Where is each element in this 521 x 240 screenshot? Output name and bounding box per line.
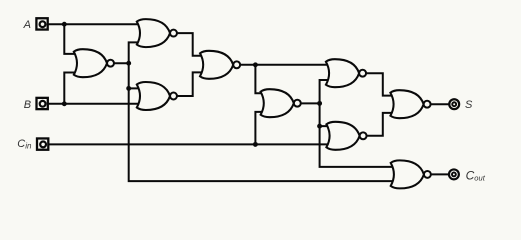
- wire B input to G3 bottom: [49, 103, 139, 105]
- nor gate G2 NOR(A,n1): [137, 19, 177, 47]
- junction n1: [126, 61, 131, 66]
- svg-text:Cout: Cout: [466, 168, 486, 182]
- wire n1 up to G2 bottom: [129, 42, 139, 63]
- junction x1: [253, 62, 258, 67]
- nor gate G1 NOR(A,B): [74, 49, 114, 77]
- junction n1-G3: [126, 86, 131, 91]
- input port B: [37, 98, 48, 109]
- wire B branch up to G1 bottom: [64, 73, 75, 104]
- svg-text:B: B: [24, 99, 31, 111]
- wire G5 out to bus: [301, 102, 319, 104]
- wire Cin branch up to G5 bottom: [255, 112, 262, 144]
- wire G1 out to junction: [115, 62, 129, 64]
- input port Cin: [37, 138, 48, 149]
- wire A branch down to G1 top: [64, 24, 75, 54]
- wire n5 bus up to G6 bottom: [320, 80, 328, 103]
- nor gate G9 carry NOR(n1,n5): [391, 160, 431, 188]
- nor gate G5 NOR(x1,Cin): [261, 89, 301, 117]
- svg-text:S: S: [465, 99, 473, 111]
- nor gate G7 NOR(n5,Cin): [326, 122, 366, 150]
- svg-text:A: A: [23, 19, 31, 31]
- junction A: [62, 22, 67, 27]
- wire n1 down and right to G9 bottom: [129, 88, 395, 181]
- wire n5 bus down to G7 top: [320, 103, 329, 126]
- wire G3 out to G4 bottom: [177, 72, 201, 96]
- wire n1 down to G3 top: [129, 63, 139, 88]
- wire n5 bus down and right to G9 top: [320, 126, 395, 167]
- wire G7 out to G8 bottom: [366, 113, 393, 136]
- junction B: [62, 101, 67, 106]
- nor gate G8 sum NOR(n6,n7): [390, 90, 430, 118]
- nor gate G3 NOR(n1,B): [137, 82, 177, 110]
- nor gate G4 xor1=NOR(n2,n3): [200, 51, 240, 79]
- wire G2 out to G4 top: [177, 33, 201, 56]
- wire x1 branch down to G5 top: [255, 65, 262, 94]
- junction n5-G7: [317, 124, 322, 129]
- wire G4 out (x1) to G6 top: [241, 64, 328, 66]
- input port A: [36, 18, 47, 29]
- wire A input to G2 top: [48, 23, 138, 25]
- wire G9 out to port Cout: [432, 173, 450, 175]
- junction n5: [317, 101, 322, 106]
- wire G6 out to G8 top: [366, 73, 393, 95]
- junction Cin: [253, 142, 258, 147]
- output port S: [449, 99, 459, 109]
- wire G8 out to port S: [431, 103, 449, 105]
- nor gate G6 NOR(x1,n5): [326, 59, 366, 87]
- svg-text:Cin: Cin: [17, 138, 32, 150]
- wire Cin input to G7 bottom: [49, 143, 328, 145]
- output port Cout: [449, 169, 459, 179]
